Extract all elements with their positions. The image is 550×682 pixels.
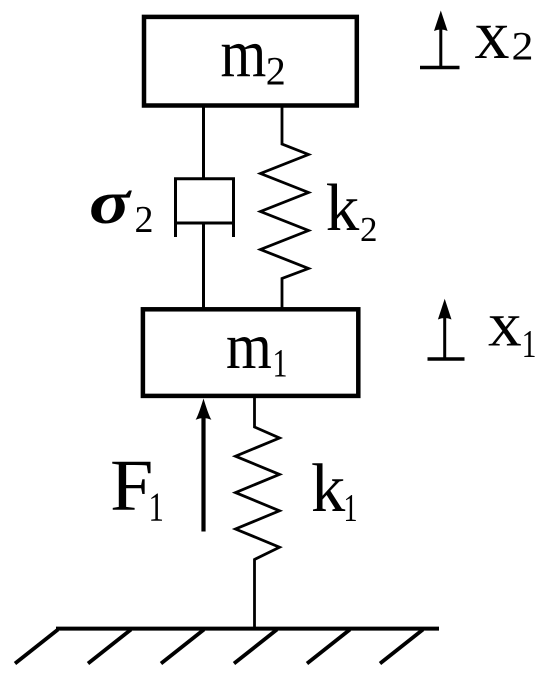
ground hatch 4: [234, 630, 277, 664]
damper cylinder cup: [176, 179, 234, 237]
label sigma2: [89, 168, 154, 241]
mass m1: [143, 309, 358, 396]
spring k1: [236, 398, 280, 629]
svg-text:1: 1: [344, 487, 358, 529]
mass m2: [144, 17, 357, 106]
spring k2: [261, 106, 309, 311]
svg-text:2: 2: [135, 199, 154, 241]
svg-text:1: 1: [522, 322, 537, 365]
ground hatch 1: [15, 630, 58, 664]
displacement arrow x2: [420, 11, 460, 68]
wire damper upper rod: [202, 106, 205, 179]
wire damper lower rod: [202, 223, 205, 311]
ground hatch 6: [380, 630, 423, 664]
label m2: [221, 15, 286, 94]
svg-text:F: F: [110, 445, 153, 526]
svg-text:k: k: [311, 450, 346, 526]
label m1: [226, 310, 287, 385]
label k1: [311, 450, 358, 529]
svg-text:2: 2: [266, 49, 286, 94]
svg-text:σ: σ: [89, 168, 132, 236]
ground line: [56, 627, 439, 631]
svg-text:m: m: [221, 15, 267, 91]
svg-text:2: 2: [360, 210, 378, 249]
svg-text:x: x: [488, 290, 522, 360]
ground hatch 3: [161, 630, 204, 664]
label x2: [475, 0, 534, 74]
label k2: [326, 171, 378, 249]
svg-text:1: 1: [149, 484, 164, 529]
svg-text:1: 1: [273, 340, 288, 385]
label x1: [488, 290, 536, 365]
svg-text:2: 2: [512, 25, 534, 69]
force arrow F1: [196, 399, 212, 532]
svg-text:k: k: [326, 171, 360, 245]
svg-text:m: m: [226, 310, 272, 383]
label F1: [110, 445, 164, 529]
ground hatch 2: [88, 630, 131, 664]
ground hatch 5: [307, 630, 350, 664]
svg-text:x: x: [475, 0, 510, 74]
displacement arrow x1: [428, 299, 465, 359]
damper piston plate: [174, 222, 235, 225]
